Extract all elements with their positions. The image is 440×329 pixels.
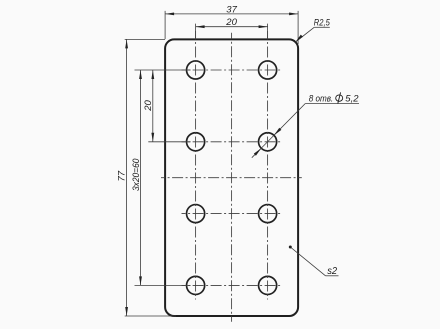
centerline column2 vertical [267, 31, 269, 300]
arrow 77 down [125, 307, 128, 316]
leader R2,5 underline [314, 26, 330, 28]
hole row1 col1 [187, 61, 205, 79]
hole row4 col2 [259, 276, 277, 294]
arrow 20-left down [151, 133, 154, 142]
arrow 77 up [125, 39, 128, 48]
leader s2 underline [326, 275, 339, 277]
dot s2 leader on face [289, 246, 292, 249]
extension line top edge to 77 [125, 38, 165, 40]
dimension line 20 left [152, 70, 154, 142]
extension line row1 to left dims [135, 69, 191, 71]
centerline row3 horizontal [182, 213, 282, 215]
svg-text:R2,5: R2,5 [314, 17, 331, 27]
dimension line 37 [165, 13, 298, 15]
extension line row2 to 20 dim [148, 141, 190, 143]
leader R2,5 diagonal [296, 27, 315, 42]
hole row4 col1 [187, 276, 205, 294]
dimension line 20 top [196, 26, 268, 28]
leader s2 diagonal [290, 247, 325, 276]
svg-text:77: 77 [117, 170, 128, 181]
arrow 37 left [165, 13, 174, 16]
arrow R2,5 at corner [296, 35, 303, 42]
leader 8-holes diagonal [274, 104, 305, 136]
hole row2 col2 [259, 133, 277, 151]
centerline row2 horizontal [182, 141, 282, 143]
centerline row4 horizontal [182, 284, 282, 286]
dimension line 77 [126, 39, 128, 316]
arrow 20-left up [151, 70, 154, 79]
diameter line through hole [261, 135, 274, 148]
hole row3 col2 [259, 205, 277, 223]
extension line bottom edge to 77 [125, 315, 176, 317]
arrow hole-callout upper-right [274, 128, 281, 135]
diameter arrow tail lower-left [252, 148, 261, 157]
symbol diameter [336, 92, 343, 103]
svg-text:20: 20 [143, 100, 154, 112]
dimension line 3x20=60 [140, 70, 142, 285]
hole row1 col2 [259, 61, 277, 79]
extension line col1 above plate [195, 24, 197, 40]
arrow 37 right [289, 13, 298, 16]
arrow 20-top left [196, 25, 205, 28]
centerline column1 vertical [195, 31, 197, 300]
svg-text:3x20=60: 3x20=60 [131, 158, 142, 191]
svg-text:5,2: 5,2 [345, 94, 359, 105]
arrow 20-top right [259, 25, 268, 28]
svg-text:8 отв.: 8 отв. [309, 94, 334, 105]
leader 8-holes underline [305, 103, 359, 105]
extension line col2 above plate [267, 24, 269, 40]
centerline plate vertical axis [231, 33, 233, 322]
centerline plate horizontal axis [161, 177, 302, 179]
svg-text:37: 37 [226, 4, 237, 15]
svg-text:s2: s2 [327, 266, 337, 277]
extension line width-37 right [297, 11, 299, 44]
extension line width-37 left [164, 11, 166, 39]
centerline row1 horizontal [182, 69, 282, 71]
hole row3 col1 [187, 205, 205, 223]
svg-text:20: 20 [225, 17, 237, 28]
hole row2 col1 [187, 133, 205, 151]
arrow hole-callout lower-left [254, 148, 261, 155]
extension line row4 to 3x20 dim [135, 284, 191, 286]
arrow 3x20 up [139, 70, 142, 79]
plate outline [165, 39, 298, 316]
arrow 3x20 down [139, 276, 142, 285]
